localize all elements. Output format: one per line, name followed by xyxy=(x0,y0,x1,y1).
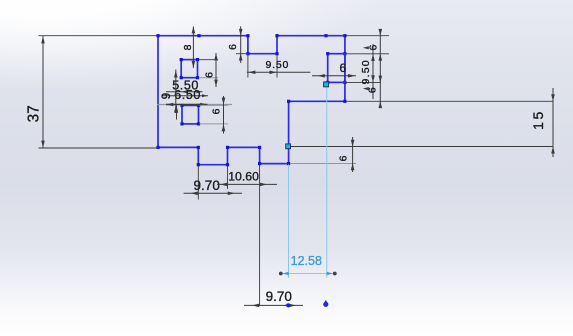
dimension 6 top right xyxy=(363,29,382,108)
svg-text:12.58: 12.58 xyxy=(291,254,322,268)
coincident marker right square xyxy=(324,82,329,87)
dimension 5.50 xyxy=(166,79,203,94)
origin point xyxy=(284,303,291,307)
dimension 9.50 right xyxy=(360,44,375,99)
dimension 6 right lower xyxy=(363,87,379,93)
dimension 9.70 top xyxy=(184,178,243,195)
dimension 6 top notch depth xyxy=(227,26,248,63)
dimension 6 bottom right extension line xyxy=(290,163,356,165)
dimension 6 right square width xyxy=(312,61,356,78)
inner square right cutout xyxy=(326,52,345,84)
svg-text:37: 37 xyxy=(26,105,43,122)
svg-text:6: 6 xyxy=(339,61,346,75)
dimension 6 bottom right xyxy=(338,137,355,172)
svg-text:6: 6 xyxy=(338,155,350,161)
lower square top reference line xyxy=(157,103,232,120)
dimension 6.50 xyxy=(162,88,208,102)
svg-text:6: 6 xyxy=(227,44,239,50)
svg-text:9.50: 9.50 xyxy=(265,59,289,71)
dimension 9.70 top extension lines xyxy=(198,166,227,200)
svg-text:8: 8 xyxy=(182,44,194,50)
svg-text:6.50: 6.50 xyxy=(174,88,201,102)
svg-text:6: 6 xyxy=(203,72,215,78)
profile outline xyxy=(158,36,345,165)
dimension 10.60 extension line xyxy=(259,165,261,306)
inner square lower-left cutout xyxy=(180,104,200,126)
profile vertex points xyxy=(156,34,346,166)
dimension 8 xyxy=(182,26,195,68)
dimension 6 upper square height xyxy=(199,53,218,87)
dimension 9.50 top xyxy=(247,59,310,74)
dimension 9.70 bottom xyxy=(244,289,303,307)
svg-text:6: 6 xyxy=(211,108,223,114)
top right extension lines xyxy=(346,36,389,83)
svg-text:9.70: 9.70 xyxy=(194,178,220,193)
dimension 15 xyxy=(530,88,555,157)
svg-text:9.50: 9.50 xyxy=(360,59,372,84)
svg-text:15: 15 xyxy=(530,109,546,130)
dimension 9.50 top extension lines xyxy=(248,55,277,78)
svg-text:9.70: 9.70 xyxy=(266,289,292,304)
coincident marker right edge xyxy=(286,144,291,149)
dimension 37 xyxy=(26,36,45,148)
selected dimension 12.58 xyxy=(279,254,337,275)
dimension 10.60 xyxy=(217,169,277,186)
selected dimension 12.58 extension lines xyxy=(289,87,327,278)
dimension 15 extension lines xyxy=(290,101,554,146)
svg-text:9: 9 xyxy=(161,93,173,99)
inner square upper-left cutout xyxy=(180,58,199,79)
svg-text:10.60: 10.60 xyxy=(228,169,259,183)
dimension 37 extension lines xyxy=(39,36,158,148)
dimension 9 left xyxy=(161,70,178,114)
sketch point xyxy=(323,300,328,307)
dimension 6 lower square height xyxy=(200,96,229,134)
